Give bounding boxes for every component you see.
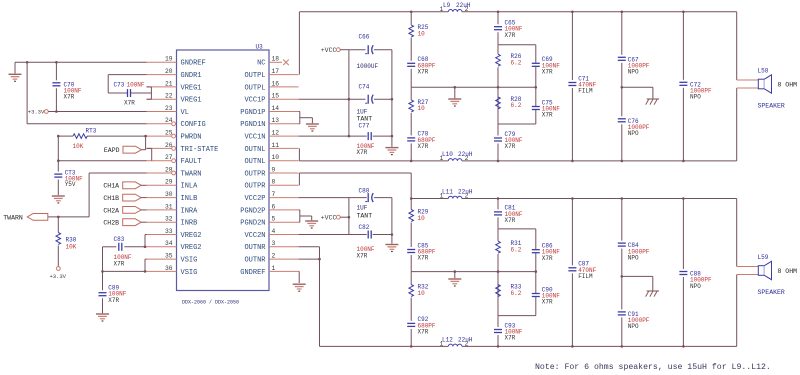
svg-text:15: 15 <box>272 93 280 100</box>
wire <box>147 86 152 88</box>
junction <box>621 86 624 89</box>
svg-text:+VCC: +VCC <box>321 214 337 221</box>
wire <box>108 74 146 76</box>
wire <box>498 123 536 125</box>
wire <box>349 49 366 51</box>
wire <box>454 272 456 279</box>
connector CH1A <box>123 182 142 189</box>
svg-text:14: 14 <box>272 105 280 112</box>
ground (VCC rail ch2) <box>385 244 398 246</box>
svg-text:X7R: X7R <box>418 69 429 76</box>
wire <box>497 254 499 316</box>
wire <box>299 172 411 174</box>
capacitor C86 100NF X7R <box>531 249 540 253</box>
junction <box>348 98 351 101</box>
wire <box>299 209 300 211</box>
pin 23 VL <box>147 111 177 113</box>
svg-text:8 OHM: 8 OHM <box>778 81 798 88</box>
svg-text:NPO: NPO <box>690 283 701 290</box>
pin 15 VCC1P <box>269 98 299 100</box>
capacitor C79 100NF X7R <box>494 138 503 142</box>
wire <box>374 49 392 51</box>
pin 11 OUTNL <box>269 147 299 149</box>
inductor L11 22uH <box>448 196 462 198</box>
capacitor C72 1000PF NPO <box>679 82 688 86</box>
svg-text:9: 9 <box>272 166 276 173</box>
svg-text:C82: C82 <box>359 224 370 231</box>
pin 7 VCC2P <box>269 197 299 199</box>
wire <box>736 88 738 161</box>
capacitor C69 100NF X7R <box>531 63 540 67</box>
wire <box>497 335 499 346</box>
wire <box>497 67 499 124</box>
svg-text:X7R: X7R <box>505 217 516 224</box>
wire <box>462 160 737 162</box>
svg-text:VCC2P: VCC2P <box>244 195 265 203</box>
capacitor C75 100NF X7R <box>531 106 540 110</box>
wire <box>736 12 738 80</box>
pin 18 NC <box>269 61 282 63</box>
capacitor C80 1UF TANT <box>367 193 374 203</box>
wire <box>410 223 412 248</box>
wire <box>299 98 349 100</box>
pin 2 OUTNR <box>269 258 299 260</box>
capacitor C66 1000UF <box>367 45 374 55</box>
svg-text:32: 32 <box>165 216 173 223</box>
pin 17 OUTPL <box>269 74 299 76</box>
svg-text:X7R: X7R <box>505 335 516 342</box>
wire <box>340 216 349 218</box>
wire <box>57 136 59 172</box>
svg-text:6.2: 6.2 <box>511 290 522 297</box>
pin 22 VREG1 <box>147 98 177 100</box>
svg-text:INRA: INRA <box>181 207 199 215</box>
junction <box>391 233 394 236</box>
svg-text:Note: For 6 ohms speakers, use: Note: For 6 ohms speakers, use 15uH for … <box>535 362 771 372</box>
wire <box>103 246 117 248</box>
svg-text:5: 5 <box>272 216 276 223</box>
pin 10 OUTNL <box>269 160 299 162</box>
wire <box>102 271 104 290</box>
svg-text:PGND2P: PGND2P <box>240 207 265 215</box>
svg-text:INRB: INRB <box>181 220 198 228</box>
wire <box>348 50 350 136</box>
pin 1 GNDREF <box>269 270 299 272</box>
junction <box>55 61 58 64</box>
wire <box>374 197 392 199</box>
junction <box>571 11 574 14</box>
wire <box>131 92 151 94</box>
wire <box>462 345 737 347</box>
wire <box>497 199 499 210</box>
svg-text:NPO: NPO <box>690 94 701 101</box>
junction <box>410 345 413 348</box>
ground (pin 1 GNDREF) <box>293 283 306 285</box>
inductor L9 22uH <box>448 10 462 12</box>
ground (mid bus ch1) <box>448 98 461 100</box>
svg-text:10: 10 <box>418 290 426 297</box>
svg-text:VREG2: VREG2 <box>181 232 202 240</box>
capacitor C83 100NF X7R <box>118 242 122 251</box>
junction <box>57 159 60 162</box>
pin 31 INRA <box>147 209 177 211</box>
svg-text:16: 16 <box>272 80 280 87</box>
wire <box>299 112 301 124</box>
svg-text:30: 30 <box>165 191 173 198</box>
svg-text:X7R: X7R <box>505 143 516 150</box>
svg-text:L10: L10 <box>442 151 453 158</box>
svg-text:NC: NC <box>257 60 265 68</box>
svg-text:GNDREF: GNDREF <box>181 60 206 68</box>
wire <box>349 135 367 137</box>
wire <box>374 98 392 100</box>
svg-text:VREG2: VREG2 <box>181 244 202 252</box>
capacitor C90 100NF X7R <box>531 293 540 297</box>
resistor R33 6.2 <box>496 285 501 297</box>
junction <box>391 98 394 101</box>
svg-text:NPO: NPO <box>628 254 639 261</box>
svg-text:X7R: X7R <box>542 69 553 76</box>
no-connect X (pin 18 NC) <box>283 60 289 66</box>
wire <box>57 180 59 196</box>
svg-text:FILM: FILM <box>578 88 593 95</box>
svg-text:X7R: X7R <box>114 260 125 267</box>
svg-text:X7R: X7R <box>108 297 119 304</box>
junction <box>571 345 574 348</box>
ground (PGND1P/PGND1N) <box>306 123 319 125</box>
capacitor C71 470NF FILM <box>568 82 577 86</box>
svg-text:1000UF: 1000UF <box>357 63 379 70</box>
svg-text:X7R: X7R <box>64 94 75 101</box>
ground (VCC rail ch1) <box>385 147 398 149</box>
junction <box>391 135 394 138</box>
junction <box>348 216 351 219</box>
svg-text:6.2: 6.2 <box>511 102 522 109</box>
junction <box>454 86 457 89</box>
wire <box>462 198 737 200</box>
pin 19 GNDREF <box>147 61 177 63</box>
svg-text:TWARN: TWARN <box>3 214 23 221</box>
svg-text:TRI-STATE: TRI-STATE <box>181 146 219 154</box>
wire <box>497 45 499 55</box>
svg-text:X7R: X7R <box>542 255 553 262</box>
capacitor C87 470NF FILM <box>568 267 577 271</box>
wire <box>410 113 412 135</box>
svg-text:100NF: 100NF <box>127 81 145 88</box>
pin 29 INLA <box>147 184 177 186</box>
speaker L58 8 OHM <box>737 79 759 81</box>
wire <box>55 88 57 111</box>
svg-text:RT3: RT3 <box>86 128 97 135</box>
svg-text:+3.3V: +3.3V <box>49 273 66 280</box>
junction <box>454 270 457 273</box>
pin 9 OUTPR <box>269 172 299 174</box>
wire <box>622 275 653 277</box>
svg-text:OUTNL: OUTNL <box>244 158 265 166</box>
node mid bus ch1 (wire) <box>411 86 536 88</box>
capacitor C85 680PF X7R <box>407 249 416 253</box>
svg-text:1: 1 <box>440 155 444 162</box>
svg-text:OUTPL: OUTPL <box>244 72 265 80</box>
svg-text:OUTPR: OUTPR <box>244 183 266 191</box>
wire <box>299 160 448 162</box>
svg-text:35: 35 <box>165 253 173 260</box>
wire <box>411 198 448 200</box>
svg-text:25: 25 <box>165 130 173 137</box>
junction <box>497 160 500 163</box>
pin 6 PGND2P <box>269 209 299 211</box>
wire <box>535 229 537 316</box>
svg-text:1: 1 <box>440 6 444 13</box>
capacitor C91 1000PF NPO <box>617 311 626 315</box>
svg-text:EAPD: EAPD <box>104 147 120 154</box>
wire <box>497 229 499 241</box>
wire <box>145 258 147 260</box>
svg-text:8 OHM: 8 OHM <box>778 268 798 275</box>
pin 13 PGND1N <box>269 123 299 125</box>
svg-text:Y5V: Y5V <box>65 181 76 188</box>
capacitor C84 1000PF NPO <box>617 243 626 247</box>
wire <box>58 135 73 137</box>
svg-text:X7R: X7R <box>418 329 429 336</box>
pin 30 INLB <box>147 197 177 199</box>
svg-text:X7R: X7R <box>418 255 429 262</box>
svg-text:31: 31 <box>165 203 173 210</box>
wire <box>410 143 412 161</box>
chassis ground (C67/C76 node) <box>647 98 659 100</box>
junction <box>497 270 500 273</box>
svg-text:OUTNR: OUTNR <box>244 244 266 252</box>
wire <box>299 221 300 223</box>
svg-text:1UF: 1UF <box>357 108 368 115</box>
svg-text:X7R: X7R <box>357 253 368 260</box>
node OUTNL bus (wire) <box>298 148 300 161</box>
svg-text:24: 24 <box>165 117 173 124</box>
wire <box>57 217 59 233</box>
capacitor C76 1000PF NPO <box>617 118 626 122</box>
ground (C89) <box>96 313 109 315</box>
wire <box>299 11 448 13</box>
wire <box>348 198 350 235</box>
svg-text:8: 8 <box>272 179 276 186</box>
svg-text:7: 7 <box>272 191 276 198</box>
svg-text:C74: C74 <box>359 84 370 91</box>
svg-text:GNDREF: GNDREF <box>240 269 265 277</box>
wire <box>621 63 623 117</box>
svg-text:C77: C77 <box>359 123 370 130</box>
svg-text:NPO: NPO <box>628 69 639 76</box>
resistor R30 10K <box>56 233 61 245</box>
svg-text:6: 6 <box>272 203 276 210</box>
wire <box>391 198 393 244</box>
svg-text:27: 27 <box>165 154 173 161</box>
wire <box>147 147 152 149</box>
wire <box>89 172 146 174</box>
svg-text:10: 10 <box>418 30 426 37</box>
wire <box>498 315 536 317</box>
svg-text:1: 1 <box>272 265 276 272</box>
wire <box>311 216 313 220</box>
svg-text:U3: U3 <box>256 43 264 50</box>
wire <box>652 276 654 291</box>
pin 5 PGND2N <box>269 221 299 223</box>
wire <box>87 135 147 137</box>
pin 26 TRI-STATE <box>147 147 172 149</box>
wire <box>410 272 412 285</box>
wire <box>142 149 146 151</box>
resistor R25 10 <box>409 25 414 37</box>
wire <box>682 12 684 80</box>
wire <box>462 11 737 13</box>
wire <box>298 271 300 283</box>
connector CH2B <box>123 219 142 226</box>
wire <box>621 317 623 346</box>
pin 33 VREG2 <box>147 234 177 236</box>
wire <box>48 216 89 218</box>
wire <box>410 199 412 210</box>
wire <box>571 199 573 266</box>
svg-text:L58: L58 <box>758 67 769 74</box>
svg-text:26: 26 <box>165 142 173 149</box>
junction <box>101 270 104 273</box>
wire <box>736 199 738 267</box>
wire <box>144 235 146 247</box>
capacitor C93 100NF X7R <box>494 329 503 333</box>
wire <box>102 298 104 313</box>
wire <box>682 88 684 161</box>
capacitor CT3 100NF Y5V <box>54 174 63 178</box>
svg-text:TWARN: TWARN <box>181 170 202 178</box>
wire <box>652 87 654 99</box>
ground (PGND2P/PGND2N) <box>305 220 318 222</box>
wire <box>410 329 412 347</box>
wire <box>621 249 623 310</box>
capacitor C68 680PF X7R <box>407 63 416 67</box>
svg-text:+3.3V: +3.3V <box>28 109 45 116</box>
pin 32 INRB <box>147 221 177 223</box>
svg-text:NPO: NPO <box>628 323 639 330</box>
wire <box>682 277 684 346</box>
wire <box>102 247 104 272</box>
wire <box>622 86 653 88</box>
wire <box>141 221 146 223</box>
wire <box>48 111 146 113</box>
junction <box>144 270 147 273</box>
svg-text:C80: C80 <box>359 187 370 194</box>
wire <box>410 12 412 25</box>
svg-text:20: 20 <box>165 68 173 75</box>
svg-text:X7R: X7R <box>357 149 368 156</box>
junction <box>410 160 413 163</box>
svg-text:12: 12 <box>272 130 280 137</box>
wire <box>151 148 153 160</box>
pin 4 VCC2N <box>269 234 299 236</box>
wire <box>145 136 147 150</box>
wire <box>311 118 313 124</box>
junction <box>682 11 685 14</box>
svg-text:OUTNR: OUTNR <box>244 257 266 265</box>
speaker L59 8 OHM <box>737 266 759 268</box>
svg-text:VL: VL <box>181 109 189 117</box>
svg-text:4: 4 <box>272 228 276 235</box>
junction <box>682 197 685 200</box>
svg-text:33: 33 <box>165 228 173 235</box>
resistor R31 6.2 <box>496 241 501 253</box>
wire <box>107 75 109 93</box>
node filter box ch1 (wire) <box>498 44 536 46</box>
pin 24 CONFIG <box>147 123 172 125</box>
svg-text:X7R: X7R <box>542 299 553 306</box>
wire <box>535 45 537 124</box>
IC U3 DDX-2060/DDX-2050 body <box>177 50 270 291</box>
wire <box>497 124 499 136</box>
wire <box>299 135 349 137</box>
pin 36 VSIG <box>147 270 177 272</box>
wire <box>150 87 152 99</box>
wire <box>410 298 412 321</box>
resistor R29 10 <box>409 210 414 222</box>
svg-text:VSIG: VSIG <box>181 269 198 277</box>
svg-text:1: 1 <box>440 341 444 348</box>
svg-text:28: 28 <box>165 166 173 173</box>
junction <box>535 270 538 273</box>
resistor RT3 10K <box>73 134 87 139</box>
pin 20 GNDR1 <box>147 74 177 76</box>
ground (CT3) <box>52 195 65 197</box>
svg-text:TANT: TANT <box>357 212 373 219</box>
wire <box>141 209 146 211</box>
junction <box>57 135 60 138</box>
wire <box>497 12 499 24</box>
wire <box>571 273 573 346</box>
junction <box>621 345 624 348</box>
wire <box>299 234 367 236</box>
wire <box>299 197 367 199</box>
wire <box>497 217 499 229</box>
wire <box>299 258 320 260</box>
wire <box>55 62 57 80</box>
svg-text:CH1B: CH1B <box>103 195 119 202</box>
pin 21 VREG1 <box>147 86 177 88</box>
svg-text:TANT: TANT <box>357 115 373 122</box>
inductor L10 22uH <box>448 159 462 161</box>
svg-text:19: 19 <box>165 56 173 63</box>
junction <box>55 110 58 113</box>
junction <box>144 135 147 138</box>
svg-text:X7R: X7R <box>505 32 516 39</box>
svg-text:OUTNL: OUTNL <box>244 146 265 154</box>
wire <box>103 270 147 272</box>
capacitor C74 1UF TANT <box>367 94 374 104</box>
svg-text:17: 17 <box>272 68 280 75</box>
junction <box>535 86 538 89</box>
svg-text:PGND1P: PGND1P <box>240 109 265 117</box>
junction <box>571 160 574 163</box>
svg-text:34: 34 <box>165 240 173 247</box>
wire <box>682 199 684 270</box>
pin 27 FAULT <box>147 160 172 162</box>
junction <box>497 86 500 89</box>
wire <box>349 98 366 100</box>
chassis ground (C84/C91 node) <box>647 290 659 292</box>
node mid bus ch2 (wire) <box>411 271 536 273</box>
svg-text:23: 23 <box>165 105 173 112</box>
wire <box>571 88 573 161</box>
svg-text:OUTPR: OUTPR <box>244 170 266 178</box>
svg-text:L11: L11 <box>442 189 453 196</box>
junction <box>497 11 500 14</box>
junction <box>26 61 29 64</box>
